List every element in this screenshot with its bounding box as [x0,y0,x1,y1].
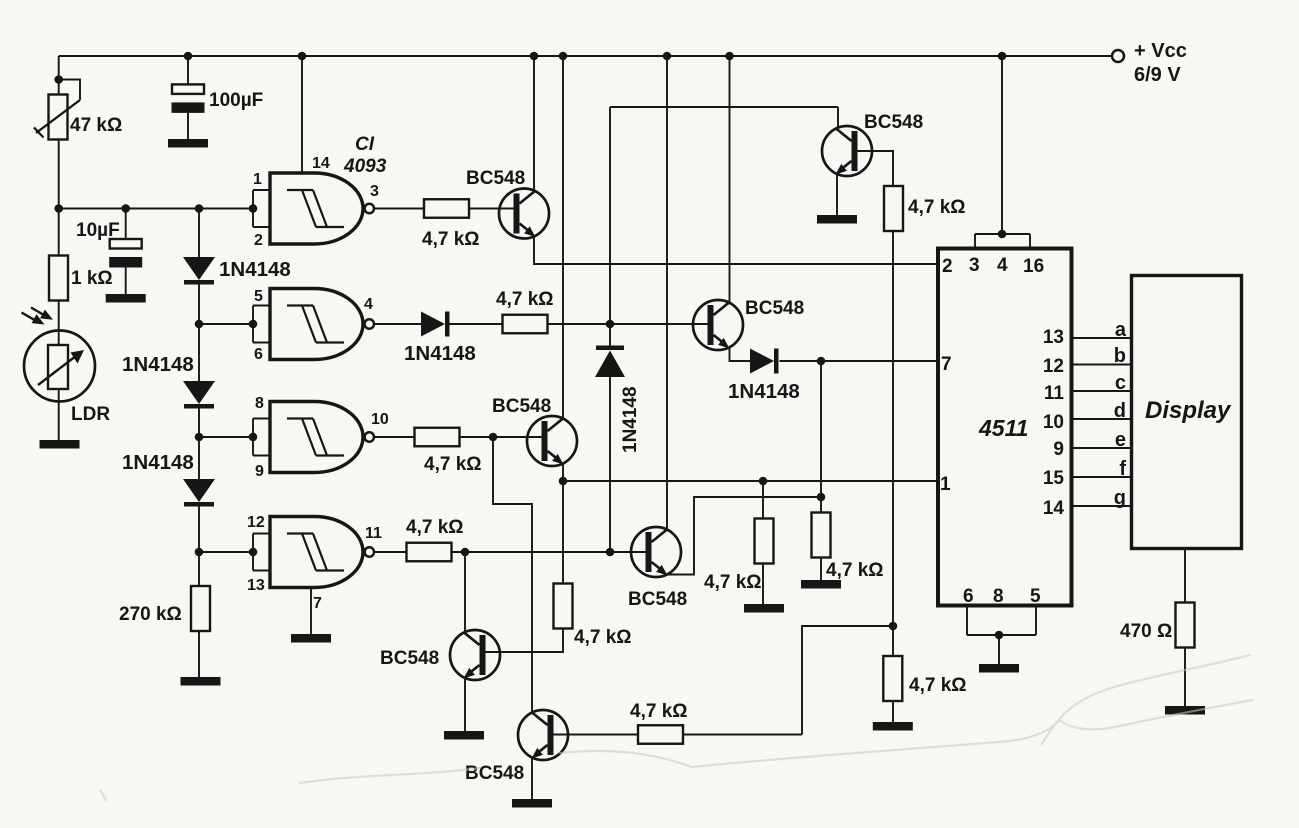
svg-text:BC548: BC548 [465,763,524,784]
svg-text:12: 12 [247,514,265,531]
svg-text:13: 13 [1043,327,1064,348]
svg-text:Display: Display [1145,397,1232,424]
svg-text:3: 3 [370,183,379,200]
svg-text:1: 1 [253,171,262,188]
svg-text:+ Vcc: + Vcc [1134,40,1187,62]
svg-text:10µF: 10µF [76,220,120,241]
svg-text:7: 7 [313,595,322,612]
svg-text:47 kΩ: 47 kΩ [70,115,122,136]
svg-text:4,7 kΩ: 4,7 kΩ [826,560,884,581]
svg-text:4,7 kΩ: 4,7 kΩ [704,572,762,593]
svg-text:4,7 kΩ: 4,7 kΩ [406,517,464,538]
svg-text:1N4148: 1N4148 [404,342,476,365]
svg-text:1N4148: 1N4148 [728,380,800,403]
svg-text:4,7 kΩ: 4,7 kΩ [630,701,688,722]
svg-text:6: 6 [254,346,263,363]
svg-text:11: 11 [1044,383,1065,404]
svg-text:5: 5 [254,288,263,305]
svg-text:270 kΩ: 270 kΩ [119,604,182,625]
svg-text:9: 9 [1053,439,1064,460]
svg-text:6/9 V: 6/9 V [1134,64,1181,86]
svg-text:1N4148: 1N4148 [122,451,194,474]
svg-text:16: 16 [1023,256,1044,277]
svg-text:6: 6 [963,586,974,607]
svg-text:11: 11 [365,525,382,542]
svg-text:d: d [1114,400,1126,422]
svg-text:1N4148: 1N4148 [122,353,194,376]
svg-text:8: 8 [993,586,1004,607]
svg-text:BC548: BC548 [466,168,525,189]
svg-text:BC548: BC548 [864,112,923,133]
svg-text:BC548: BC548 [745,298,804,319]
svg-text:4,7 kΩ: 4,7 kΩ [909,675,967,696]
svg-text:1: 1 [940,474,951,495]
svg-text:14: 14 [1043,498,1065,519]
svg-text:1N4148: 1N4148 [219,258,291,281]
svg-text:4,7 kΩ: 4,7 kΩ [424,454,482,475]
svg-text:LDR: LDR [71,404,110,425]
svg-text:10: 10 [371,411,389,428]
svg-text:1 kΩ: 1 kΩ [71,268,113,289]
svg-text:BC548: BC548 [380,648,439,669]
svg-text:15: 15 [1043,468,1065,489]
svg-text:BC548: BC548 [492,396,551,417]
svg-text:7: 7 [941,354,952,375]
svg-text:5: 5 [1030,586,1041,607]
svg-text:12: 12 [1043,356,1064,377]
svg-text:10: 10 [1043,412,1064,433]
svg-text:4093: 4093 [343,156,387,177]
svg-text:f: f [1119,458,1126,480]
svg-text:4511: 4511 [978,415,1028,441]
svg-text:2: 2 [942,256,953,277]
svg-text:1N4148: 1N4148 [620,386,641,453]
svg-text:g: g [1114,487,1126,509]
svg-text:e: e [1115,429,1126,451]
svg-text:9: 9 [255,463,264,480]
svg-text:4,7 kΩ: 4,7 kΩ [908,197,966,218]
svg-text:3: 3 [969,255,980,276]
svg-text:4,7 kΩ: 4,7 kΩ [574,627,632,648]
svg-text:a: a [1115,319,1127,341]
svg-text:b: b [1114,345,1126,367]
svg-text:4,7 kΩ: 4,7 kΩ [422,229,480,250]
svg-text:CI: CI [355,134,375,155]
svg-text:2: 2 [254,232,263,249]
svg-text:c: c [1115,372,1126,394]
svg-text:4,7 kΩ: 4,7 kΩ [496,289,554,310]
svg-text:13: 13 [247,577,265,594]
svg-text:100µF: 100µF [209,90,263,111]
svg-text:4: 4 [997,255,1008,276]
svg-text:14: 14 [312,155,330,172]
svg-text:BC548: BC548 [628,589,687,610]
svg-text:4: 4 [364,296,373,313]
svg-text:470 Ω: 470 Ω [1120,621,1172,642]
svg-text:8: 8 [255,395,264,412]
